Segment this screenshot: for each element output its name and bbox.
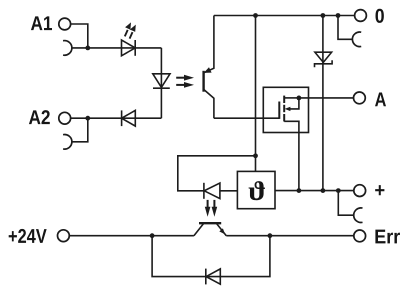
node +24V label — [9, 229, 47, 243]
wire Q1 emitter to MOSFET gate — [214, 117, 279, 119]
junction top rail / zener — [321, 13, 326, 18]
socket contact below A2 — [63, 135, 72, 150]
wire A1 circle to junction — [71, 24, 88, 48]
terminal A — [354, 92, 366, 104]
MOSFET body arrow — [285, 98, 299, 111]
node A2 label — [29, 110, 50, 124]
wire 0 socket branch — [338, 16, 352, 40]
terminal A1 — [59, 18, 71, 30]
junction +24V / bottom loop — [150, 233, 155, 238]
node plus label — [375, 185, 384, 195]
junction plus rail / source — [297, 188, 302, 193]
wire opto LED vertical — [160, 48, 162, 118]
junction plus rail / socket — [336, 188, 341, 193]
temperature sensor theta symbol — [249, 181, 265, 200]
wire feedback vertical from rail to temp box — [255, 16, 257, 172]
wire bottom loop — [152, 236, 270, 277]
junction top rail / feedback — [253, 13, 258, 18]
terminal plus — [354, 185, 366, 197]
node A label — [375, 92, 386, 106]
Q2 emitter leg — [217, 224, 227, 236]
wire plus socket branch — [338, 191, 353, 216]
wire LED D5 to temp box — [220, 190, 238, 192]
LED D1 light arrows — [125, 22, 136, 38]
wire plus rail — [275, 190, 354, 192]
MOSFET channel segments — [283, 96, 285, 122]
wire A2 circle row — [71, 117, 162, 119]
LED D5 down arrows to Q2 — [205, 200, 217, 217]
wire drain to terminal A — [299, 97, 354, 99]
MOSFET drain link — [284, 97, 299, 99]
junction feedback — [253, 153, 258, 158]
socket contact below A1 — [63, 41, 72, 56]
wire top rail — [214, 15, 355, 17]
MOSFET U1 box — [263, 87, 308, 132]
phototransistor Q1 base bar — [202, 71, 204, 92]
node A1 label — [31, 16, 52, 30]
wire zener branch vertical — [322, 16, 324, 191]
junction MOSFET drain — [297, 96, 302, 101]
terminal A2 — [59, 112, 71, 124]
junction Err / bottom loop — [268, 233, 273, 238]
junction A2 — [85, 116, 90, 121]
wire A1 socket row to opto vertical — [72, 47, 161, 49]
terminal +24V — [58, 230, 70, 242]
Q2 emitter arrow — [219, 228, 225, 234]
temperature sensor box — [237, 171, 275, 208]
terminal Err — [354, 230, 366, 242]
optocoupler light arrows — [176, 75, 194, 88]
socket contact below plus — [354, 208, 363, 223]
phototransistor Q2 base bar — [199, 222, 221, 224]
zener diode D4 — [315, 52, 333, 67]
Q1 collector arrow — [204, 67, 212, 73]
diode D2 reverse polarity — [122, 110, 136, 126]
wire +24V to Q2 collector — [69, 235, 194, 237]
terminal 0 — [355, 10, 367, 22]
MOSFET source wire down to plus rail — [284, 121, 299, 190]
wire A2 socket to junction — [72, 118, 88, 142]
Q2 collector leg — [194, 224, 204, 236]
Q1 collector wire to top rail — [204, 16, 214, 73]
diode D6 freewheel — [206, 269, 221, 285]
MOSFET gate bar — [278, 102, 280, 119]
node Err label — [375, 230, 400, 244]
junction plus rail / zener — [321, 188, 326, 193]
optocoupler LED D3 — [153, 74, 170, 88]
junction top rail / 0 socket — [336, 13, 341, 18]
wire feedback loop left — [178, 156, 256, 191]
wire Q2 emitter to Err — [226, 235, 354, 237]
node 0 label — [375, 9, 383, 23]
socket contact below 0 — [352, 32, 361, 47]
LED D1 indicator diode — [122, 40, 136, 56]
junction A1 — [85, 46, 90, 51]
Q1 emitter wire down — [204, 90, 214, 119]
LED D5 error indicator — [204, 183, 220, 199]
